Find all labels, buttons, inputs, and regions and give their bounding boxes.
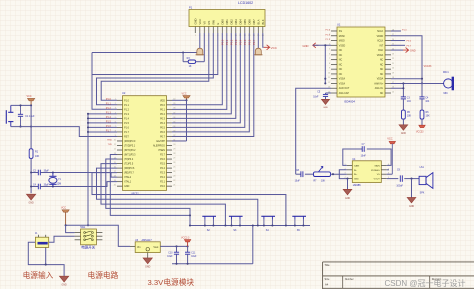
wire C4 to XTAL1 <box>40 182 117 188</box>
switch SW1 power <box>75 227 103 249</box>
svg-text:NC: NC <box>339 60 343 62</box>
svg-text:VCC: VCC <box>61 207 66 210</box>
wires U2 P3 to keys <box>92 155 286 226</box>
svg-text:11: 11 <box>114 144 116 146</box>
svg-text:(TXD)P3.1: (TXD)P3.1 <box>124 146 136 148</box>
svg-text:U2: U2 <box>122 91 126 95</box>
svg-text:GND: GND <box>323 107 328 109</box>
svg-text:GND: GND <box>354 179 359 181</box>
svg-text:P1.1: P1.1 <box>106 102 112 105</box>
connector J1 power jack <box>35 233 49 248</box>
svg-text:RXD: RXD <box>107 139 112 141</box>
svg-text:P1.4: P1.4 <box>124 118 129 120</box>
svg-text:VCC33: VCC33 <box>416 132 424 134</box>
svg-text:AMS1117: AMS1117 <box>142 239 153 242</box>
svg-text:Vout: Vout <box>153 246 158 249</box>
svg-text:PSEN: PSEN <box>159 150 166 152</box>
power VCC arrow <box>264 45 278 50</box>
svg-text:P0.0: P0.0 <box>220 39 224 45</box>
svg-text:DB5: DB5 <box>243 19 247 25</box>
wire AUD OUT <box>296 88 331 174</box>
svg-text:10nF: 10nF <box>313 97 319 99</box>
U4 pins <box>345 164 390 179</box>
svg-text:25: 25 <box>173 167 175 169</box>
label 电源电路 <box>88 270 119 280</box>
resistor R5 <box>402 110 412 119</box>
svg-text:10: 10 <box>114 139 116 141</box>
svg-text:P1.2: P1.2 <box>106 107 112 110</box>
net label P1.4 <box>391 30 407 32</box>
wire E to P1.0 <box>92 33 218 109</box>
svg-text:电源开关: 电源开关 <box>81 244 95 249</box>
ground (U4) <box>343 189 352 199</box>
svg-text:NC: NC <box>380 93 384 95</box>
svg-text:GAIN: GAIN <box>354 164 360 167</box>
wire V0 rail <box>92 53 200 75</box>
wire jack loop <box>28 242 64 276</box>
wire VDD-EA/VPP <box>172 99 188 141</box>
wire RS to P1.2 <box>101 33 209 100</box>
svg-text:P2.6: P2.6 <box>160 159 165 161</box>
svg-text:VDD: VDD <box>160 100 165 102</box>
svg-text:35: 35 <box>173 121 175 123</box>
wire gain loop <box>343 149 391 170</box>
svg-text:30: 30 <box>173 144 175 146</box>
svg-text:P2.4: P2.4 <box>160 168 165 170</box>
wire ANA IN- <box>391 83 404 96</box>
svg-text:(T0)P3.4: (T0)P3.4 <box>124 159 134 161</box>
svg-text:P2.3: P2.3 <box>160 173 165 175</box>
net label VCC33 <box>424 65 432 68</box>
svg-text:P0.7: P0.7 <box>160 136 165 138</box>
svg-text:23: 23 <box>173 176 175 178</box>
LCD1602 pins 1-16 <box>195 27 265 38</box>
switch S5 key <box>292 216 306 232</box>
svg-text:GND: GND <box>29 203 34 205</box>
svg-text:20: 20 <box>114 185 116 187</box>
power VCC (U4) <box>387 137 395 175</box>
svg-text:NC: NC <box>380 64 384 66</box>
svg-text:(WR)P3.6: (WR)P3.6 <box>124 168 135 170</box>
svg-text:P0.3: P0.3 <box>234 39 238 45</box>
svg-text:C10: C10 <box>168 252 173 254</box>
svg-text:DB0: DB0 <box>220 19 224 25</box>
wire R5 to gnd <box>402 119 404 125</box>
svg-text:BLK: BLK <box>261 19 265 24</box>
power VCC3.3 (mic bias) <box>416 119 425 134</box>
svg-text:9: 9 <box>329 68 330 70</box>
svg-text:GND: GND <box>409 206 414 208</box>
svg-text:20: 20 <box>392 68 394 70</box>
wire VCC to SW1 <box>66 225 75 232</box>
wire P1.3-P1.7 rail <box>87 113 117 227</box>
svg-text:C1 10uF: C1 10uF <box>25 115 35 118</box>
svg-text:Number: Number <box>345 278 354 281</box>
svg-text:P2.0: P2.0 <box>160 186 165 188</box>
wire ANA IN+ to mic <box>391 82 444 84</box>
svg-text:电源输入: 电源输入 <box>23 270 54 280</box>
svg-text:100uF: 100uF <box>396 185 403 187</box>
svg-text:P1.3: P1.3 <box>124 114 129 116</box>
svg-text:GND: GND <box>193 18 197 24</box>
svg-text:P1.0: P1.0 <box>124 100 129 102</box>
svg-text:VCC33: VCC33 <box>424 65 432 68</box>
svg-text:33: 33 <box>173 130 175 132</box>
capacitor C8 <box>295 170 314 182</box>
svg-text:NC: NC <box>339 69 343 71</box>
svg-text:3: 3 <box>115 108 116 110</box>
svg-text:P3.6: P3.6 <box>407 41 412 43</box>
svg-text:19: 19 <box>392 72 394 74</box>
svg-text:5: 5 <box>329 48 330 50</box>
ground (crystal) <box>27 194 36 204</box>
svg-text:P1.6: P1.6 <box>326 34 331 36</box>
net label P3.6 <box>391 41 412 43</box>
wire xtal rail bottom <box>30 185 38 187</box>
svg-text:21: 21 <box>173 185 175 187</box>
wire jack to SW1 <box>49 236 75 242</box>
wire R7 to IN+ <box>331 173 347 175</box>
svg-text:10K: 10K <box>407 116 412 118</box>
svg-text:28: 28 <box>173 153 175 155</box>
svg-text:INT: INT <box>379 45 383 47</box>
ground GND bell (LCD pin2) <box>196 33 204 55</box>
svg-text:MISO: MISO <box>339 41 345 43</box>
port GND (VSSD) <box>303 43 319 48</box>
net label P3.7 <box>391 45 412 47</box>
switch S3 key <box>229 216 243 232</box>
svg-text:10nF: 10nF <box>361 156 367 158</box>
svg-text:GND: GND <box>62 284 67 286</box>
svg-text:1: 1 <box>115 99 116 101</box>
svg-text:XCLK: XCLK <box>377 41 384 43</box>
svg-text:3.3V电源模块: 3.3V电源模块 <box>148 277 195 287</box>
svg-text:VCC3.3: VCC3.3 <box>181 237 190 240</box>
svg-text:36: 36 <box>173 117 175 119</box>
svg-text:2: 2 <box>115 103 116 105</box>
resistor R6 <box>420 110 430 119</box>
wire xtal rail top <box>30 171 38 173</box>
svg-text:VDDA: VDDA <box>377 78 384 81</box>
svg-text:NC: NC <box>380 69 384 71</box>
capacitor C1 <box>18 104 35 127</box>
svg-text:15: 15 <box>392 91 394 93</box>
wire C2 to XTAL2 <box>40 171 117 177</box>
wire R1 to gnd rail <box>30 158 32 193</box>
svg-text:GND: GND <box>145 266 150 268</box>
svg-text:P1.6: P1.6 <box>124 127 129 129</box>
capacitor C3 <box>401 97 412 110</box>
svg-text:Title: Title <box>325 263 330 267</box>
svg-text:(INT0)P3.2: (INT0)P3.2 <box>124 150 136 152</box>
svg-text:LS1: LS1 <box>420 166 425 169</box>
node junction <box>182 51 184 53</box>
svg-text:Size: Size <box>325 278 330 281</box>
capacitor C7 <box>361 144 367 158</box>
ground (U3) <box>143 258 152 268</box>
svg-text:TXD: TXD <box>108 144 113 146</box>
svg-text:BLA: BLA <box>256 19 260 24</box>
capacitor C4b <box>419 83 430 110</box>
wire RST to U2 <box>31 127 117 137</box>
svg-text:(T1)P3.5: (T1)P3.5 <box>124 164 134 166</box>
svg-text:22: 22 <box>173 180 175 182</box>
potentiometer R7 <box>314 166 331 182</box>
svg-text:P1.7: P1.7 <box>326 39 331 41</box>
ground (power input) <box>60 276 69 286</box>
net labels P1.5-P1.7 <box>326 30 331 42</box>
svg-text:V0: V0 <box>202 21 206 25</box>
svg-text:24: 24 <box>173 171 175 173</box>
svg-text:GND: GND <box>345 198 350 200</box>
svg-text:NC: NC <box>380 60 384 62</box>
svg-text:XTAL2: XTAL2 <box>124 176 132 179</box>
resistor R1 <box>29 149 39 159</box>
svg-text:RST: RST <box>124 136 129 138</box>
svg-text:P2.2: P2.2 <box>160 177 165 179</box>
svg-text:P2.5: P2.5 <box>160 164 165 166</box>
svg-text:NC: NC <box>339 50 343 52</box>
svg-text:P1.7: P1.7 <box>124 132 129 134</box>
wire U3 input stub <box>130 245 135 247</box>
svg-text:MIC1: MIC1 <box>443 71 449 74</box>
svg-text:NC: NC <box>380 74 384 76</box>
svg-text:26: 26 <box>173 162 175 164</box>
svg-text:RS: RS <box>207 21 211 25</box>
wire to R3 <box>183 53 188 62</box>
wire keys to gnd <box>252 224 254 263</box>
connector P1 LCD1602 <box>189 1 265 26</box>
svg-text:P1.1: P1.1 <box>124 105 129 107</box>
svg-text:RAC: RAC <box>378 49 383 52</box>
capacitor C4 <box>33 184 49 190</box>
svg-text:A4: A4 <box>325 283 329 287</box>
capacitor C2 <box>33 170 49 176</box>
wire reset top rail <box>11 104 32 106</box>
svg-text:29: 29 <box>173 148 175 150</box>
wire U3 output rail <box>160 245 188 247</box>
svg-text:DB1: DB1 <box>225 19 229 25</box>
svg-text:GND: GND <box>401 133 406 135</box>
crystal Y1 <box>49 173 62 187</box>
wire VS <box>387 173 393 175</box>
svg-text:IN-: IN- <box>354 170 357 172</box>
svg-text:P0.0: P0.0 <box>160 105 165 107</box>
port GND (RAC) <box>391 48 416 53</box>
svg-text:P0.5: P0.5 <box>160 127 165 129</box>
svg-text:6: 6 <box>329 53 330 55</box>
svg-text:P0.7: P0.7 <box>252 39 256 45</box>
power VCC bar (5V rail) <box>61 207 69 226</box>
svg-text:P2.1: P2.1 <box>160 182 165 184</box>
svg-text:ANA IN+: ANA IN+ <box>374 82 384 85</box>
regulator U3 AMS1117 <box>135 239 160 253</box>
svg-text:P1.2: P1.2 <box>124 109 129 111</box>
svg-text:10uF: 10uF <box>191 256 197 258</box>
ground (R5) <box>399 125 408 135</box>
wire BLA to VCC <box>263 33 264 47</box>
svg-text:P0.6: P0.6 <box>247 39 251 45</box>
svg-text:P0.2: P0.2 <box>160 114 165 116</box>
svg-text:10uF: 10uF <box>167 256 173 258</box>
svg-text:37: 37 <box>173 112 175 114</box>
svg-text:NC: NC <box>339 74 343 76</box>
svg-text:P1: P1 <box>189 5 193 9</box>
svg-text:ANA IN-: ANA IN- <box>375 87 384 90</box>
svg-text:DB7: DB7 <box>252 19 256 25</box>
svg-text:P2.7: P2.7 <box>160 155 165 157</box>
wire U3 gnd <box>147 253 149 259</box>
svg-text:MOSI: MOSI <box>339 36 345 38</box>
svg-text:VCC: VCC <box>182 92 187 95</box>
svg-text:SPK: SPK <box>420 192 425 195</box>
svg-text:P1.0: P1.0 <box>106 98 112 101</box>
ground (C5) <box>322 99 330 108</box>
capacitor C5 <box>313 92 331 100</box>
svg-text:12M: 12M <box>57 184 62 186</box>
capacitor C10 <box>167 246 179 263</box>
svg-text:DB2: DB2 <box>229 19 233 25</box>
voice chip U1 ISD4004 <box>337 23 385 104</box>
label 电源输入 <box>23 270 54 280</box>
svg-text:P0.1: P0.1 <box>225 39 229 45</box>
svg-text:VCC: VCC <box>387 137 393 141</box>
switch S1 reset button <box>6 105 13 126</box>
svg-text:ANA CAP: ANA CAP <box>339 92 350 95</box>
svg-text:VDDD: VDDD <box>377 36 384 38</box>
power VCC bar (U2) <box>182 92 191 100</box>
wire BLK down <box>257 33 259 48</box>
wire VDDD-VDDA <box>391 36 423 85</box>
svg-text:GAIN: GAIN <box>374 164 380 167</box>
capacitor C9 <box>396 170 419 188</box>
svg-text:EA/VPP: EA/VPP <box>156 140 165 143</box>
svg-text:DB4: DB4 <box>238 19 242 25</box>
speaker LS1 <box>419 166 433 194</box>
svg-text:VSSA: VSSA <box>339 82 346 85</box>
svg-text:P0.5: P0.5 <box>243 39 247 45</box>
svg-text:RW: RW <box>211 20 215 25</box>
capacitor C11 <box>185 246 197 263</box>
svg-text:NC: NC <box>339 55 343 57</box>
microcontroller U2 89C52 <box>122 91 167 195</box>
svg-text:12: 12 <box>328 82 330 84</box>
wire key common rail <box>189 224 310 226</box>
wire gnd rail <box>172 263 253 265</box>
svg-text:AUD OUT: AUD OUT <box>339 87 350 90</box>
svg-text:(RXD)P3.0: (RXD)P3.0 <box>124 141 136 143</box>
svg-text:P3.7: P3.7 <box>407 45 412 47</box>
svg-text:P1.4: P1.4 <box>402 30 407 32</box>
wire VCC rail to U3 <box>65 224 130 246</box>
svg-text:GND: GND <box>303 44 309 48</box>
wire R3 to LCD pin3 <box>196 33 205 62</box>
svg-text:(RD)P3.7: (RD)P3.7 <box>124 173 134 175</box>
U2 pins <box>114 99 176 187</box>
svg-text:NC: NC <box>339 64 343 66</box>
svg-text:E: E <box>216 23 220 25</box>
svg-text:1K: 1K <box>189 65 192 68</box>
wire VCC down <box>30 105 32 148</box>
svg-text:SCLK: SCLK <box>377 31 384 33</box>
svg-text:GND: GND <box>410 49 416 52</box>
svg-text:DB6: DB6 <box>247 19 251 25</box>
svg-text:ALE/PROG: ALE/PROG <box>153 145 165 148</box>
svg-text:VDDA: VDDA <box>377 54 384 57</box>
svg-text:BYPASS: BYPASS <box>371 169 380 172</box>
svg-text:22: 22 <box>392 58 394 60</box>
svg-text:10uF: 10uF <box>295 180 301 182</box>
title block <box>323 262 474 289</box>
svg-text:GND: GND <box>124 186 129 188</box>
svg-text:SW1: SW1 <box>80 227 86 229</box>
wire RW to P1.1 <box>97 33 214 105</box>
net labels P0.0-P0.7 <box>220 39 256 45</box>
svg-text:Vin: Vin <box>137 246 141 249</box>
svg-text:27: 27 <box>173 157 175 159</box>
svg-text:VCC: VCC <box>198 19 202 25</box>
svg-text:DB3: DB3 <box>234 19 238 25</box>
power VCC bar (reset) <box>27 95 35 105</box>
svg-text:P0.3: P0.3 <box>160 118 165 120</box>
svg-text:10K: 10K <box>35 155 40 158</box>
microphone MIC1 <box>443 71 454 95</box>
svg-text:CSDN @冠一电子设计: CSDN @冠一电子设计 <box>385 278 466 288</box>
svg-text:21: 21 <box>392 63 394 65</box>
wire VSS rail <box>313 44 331 84</box>
svg-text:电源电路: 电源电路 <box>88 270 119 280</box>
svg-text:VCC: VCC <box>27 95 32 98</box>
svg-text:39: 39 <box>173 103 175 105</box>
svg-text:MIC: MIC <box>444 92 449 95</box>
svg-text:23: 23 <box>392 53 394 55</box>
svg-text:P0.4: P0.4 <box>160 123 165 125</box>
wire IN- to GND <box>339 170 348 180</box>
amplifier U4 LM386 <box>352 158 381 187</box>
svg-text:ISD4004: ISD4004 <box>344 100 355 104</box>
svg-text:P0.1: P0.1 <box>160 109 165 111</box>
svg-text:VOUT: VOUT <box>374 179 381 181</box>
ground GND bell (BLK) <box>254 48 262 55</box>
svg-text:VSSD: VSSD <box>339 45 346 47</box>
svg-text:LM386: LM386 <box>353 183 361 187</box>
svg-text:XTAL1: XTAL1 <box>124 181 132 184</box>
resistor R3 <box>187 57 196 68</box>
wire C9 to gnd <box>411 179 413 198</box>
svg-text:10K: 10K <box>426 116 431 118</box>
svg-text:7: 7 <box>329 58 330 60</box>
svg-text:VCC: VCC <box>271 46 278 50</box>
label 3.3V电源模块 <box>148 277 195 287</box>
switch S4 key <box>261 216 275 232</box>
svg-text:10K: 10K <box>321 180 326 182</box>
svg-text:11: 11 <box>328 77 330 79</box>
svg-text:P0.4: P0.4 <box>238 39 242 45</box>
svg-text:VSSA: VSSA <box>339 78 346 81</box>
svg-text:P0.2: P0.2 <box>229 39 233 45</box>
power VCC3.3 <box>181 237 191 247</box>
svg-text:P0.6: P0.6 <box>160 132 165 134</box>
svg-text:SS: SS <box>339 31 343 33</box>
svg-text:12: 12 <box>114 148 116 150</box>
svg-text:10: 10 <box>328 72 330 74</box>
svg-text:38: 38 <box>173 108 175 110</box>
svg-text:U1: U1 <box>337 23 341 27</box>
watermark CSDN <box>385 278 466 288</box>
net labels P1.x RXD TXD <box>106 98 113 146</box>
wire bus DB0-DB7 to P0.0-P0.7 <box>172 33 254 136</box>
wire reset bottom rail <box>11 126 32 128</box>
